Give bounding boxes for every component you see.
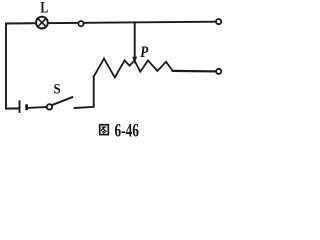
- svg-text:S: S: [54, 81, 61, 97]
- svg-text:6-46: 6-46: [115, 121, 139, 139]
- svg-text:P: P: [140, 44, 148, 61]
- svg-text:L: L: [40, 0, 48, 17]
